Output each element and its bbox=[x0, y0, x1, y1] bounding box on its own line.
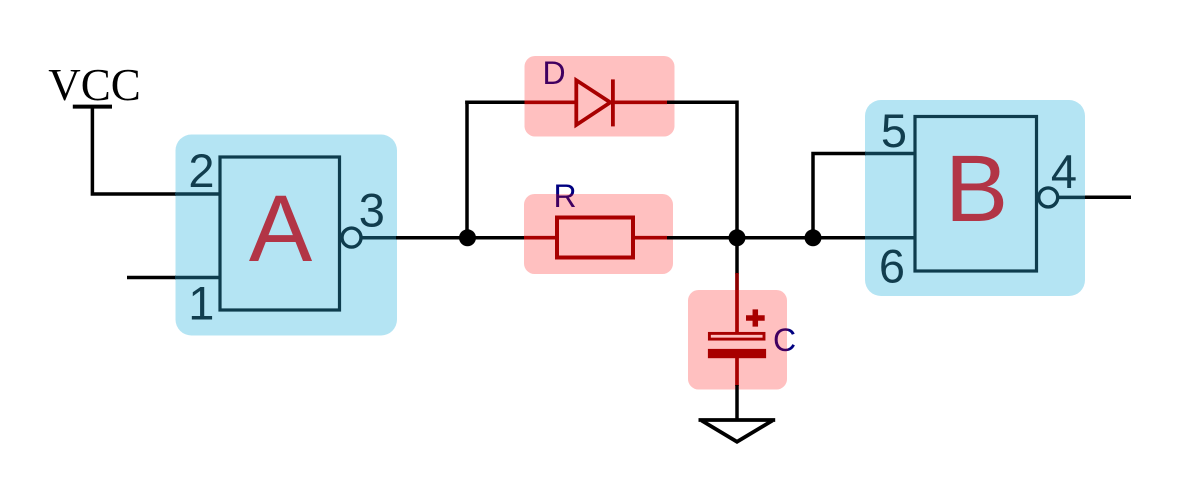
svg-text:6: 6 bbox=[879, 240, 905, 293]
node 1 junction dot bbox=[459, 229, 476, 246]
highlight box diode D bbox=[525, 56, 675, 137]
node 2 junction dot bbox=[729, 229, 746, 246]
gate B output bubble bbox=[1039, 188, 1058, 207]
wire node 3 up to gate B pin 5 bbox=[813, 154, 866, 238]
wire diode row left segment bbox=[465, 101, 525, 105]
highlight box resistor R bbox=[524, 194, 673, 274]
wire resistor to node 2 bbox=[667, 236, 737, 240]
wire node 2 down to capacitor bbox=[735, 238, 739, 274]
wire node 3 to gate B pin 6 bbox=[813, 236, 866, 240]
wire node 1 up to diode row bbox=[465, 101, 469, 240]
highlight box gate B bbox=[865, 100, 1085, 296]
gate B body (U2) bbox=[915, 117, 1037, 272]
gate A output lead bbox=[362, 236, 397, 240]
svg-text:4: 4 bbox=[1051, 145, 1077, 198]
wire diode to top-right corner and down to node 2 bbox=[667, 102, 737, 238]
ground triangle bbox=[702, 421, 773, 442]
capacitor C bottom plate bbox=[708, 349, 766, 358]
diode D cathode lead bbox=[613, 100, 667, 104]
resistor R right lead bbox=[633, 236, 667, 240]
svg-text:R: R bbox=[553, 178, 576, 214]
svg-text:D: D bbox=[542, 55, 565, 91]
svg-text:C: C bbox=[773, 322, 796, 358]
capacitor C plus sign bbox=[746, 309, 765, 326]
wire node 1 to resistor bbox=[467, 236, 525, 240]
ground bar bbox=[699, 418, 776, 422]
wire input stub to gate A pin 1 bbox=[127, 276, 176, 280]
wire node 2 to node 3 bbox=[737, 236, 813, 240]
svg-text:B: B bbox=[945, 136, 1008, 242]
gate A body (U1) bbox=[220, 157, 340, 310]
highlight box capacitor C bbox=[688, 290, 787, 390]
diode D anode lead bbox=[525, 100, 578, 104]
capacitor C top plate bbox=[709, 333, 764, 339]
gate B pin 6 lead bbox=[865, 236, 916, 240]
wire capacitor to ground bbox=[735, 385, 739, 419]
svg-text:5: 5 bbox=[881, 104, 907, 157]
gate B output lead bbox=[1059, 196, 1085, 200]
capacitor C top lead (inside highlight) bbox=[735, 290, 739, 332]
gate A output bubble bbox=[342, 228, 361, 247]
resistor R left lead bbox=[524, 236, 558, 240]
svg-text:1: 1 bbox=[188, 277, 214, 330]
svg-text:2: 2 bbox=[188, 144, 214, 197]
gate A pin 2 lead bbox=[175, 192, 220, 196]
wire gate B output stub bbox=[1085, 196, 1131, 200]
capacitor C bottom lead bbox=[735, 358, 739, 386]
node 3 junction dot bbox=[805, 229, 822, 246]
gate A pin 1 lead bbox=[175, 276, 220, 280]
gate B pin 5 lead bbox=[865, 152, 916, 156]
wire gate A output to node 1 bbox=[396, 236, 467, 240]
wire VCC to gate A pin 2 bbox=[92, 107, 176, 194]
svg-text:A: A bbox=[249, 176, 313, 282]
resistor R body bbox=[557, 218, 633, 258]
power VCC rail bar bbox=[73, 105, 112, 109]
capacitor C top lead (outside highlight) bbox=[735, 273, 739, 290]
highlight box gate A bbox=[176, 135, 398, 336]
svg-text:VCC: VCC bbox=[48, 60, 141, 110]
diode D cathode bar bbox=[611, 79, 615, 126]
svg-text:3: 3 bbox=[359, 184, 385, 237]
diode D triangle bbox=[576, 80, 610, 125]
